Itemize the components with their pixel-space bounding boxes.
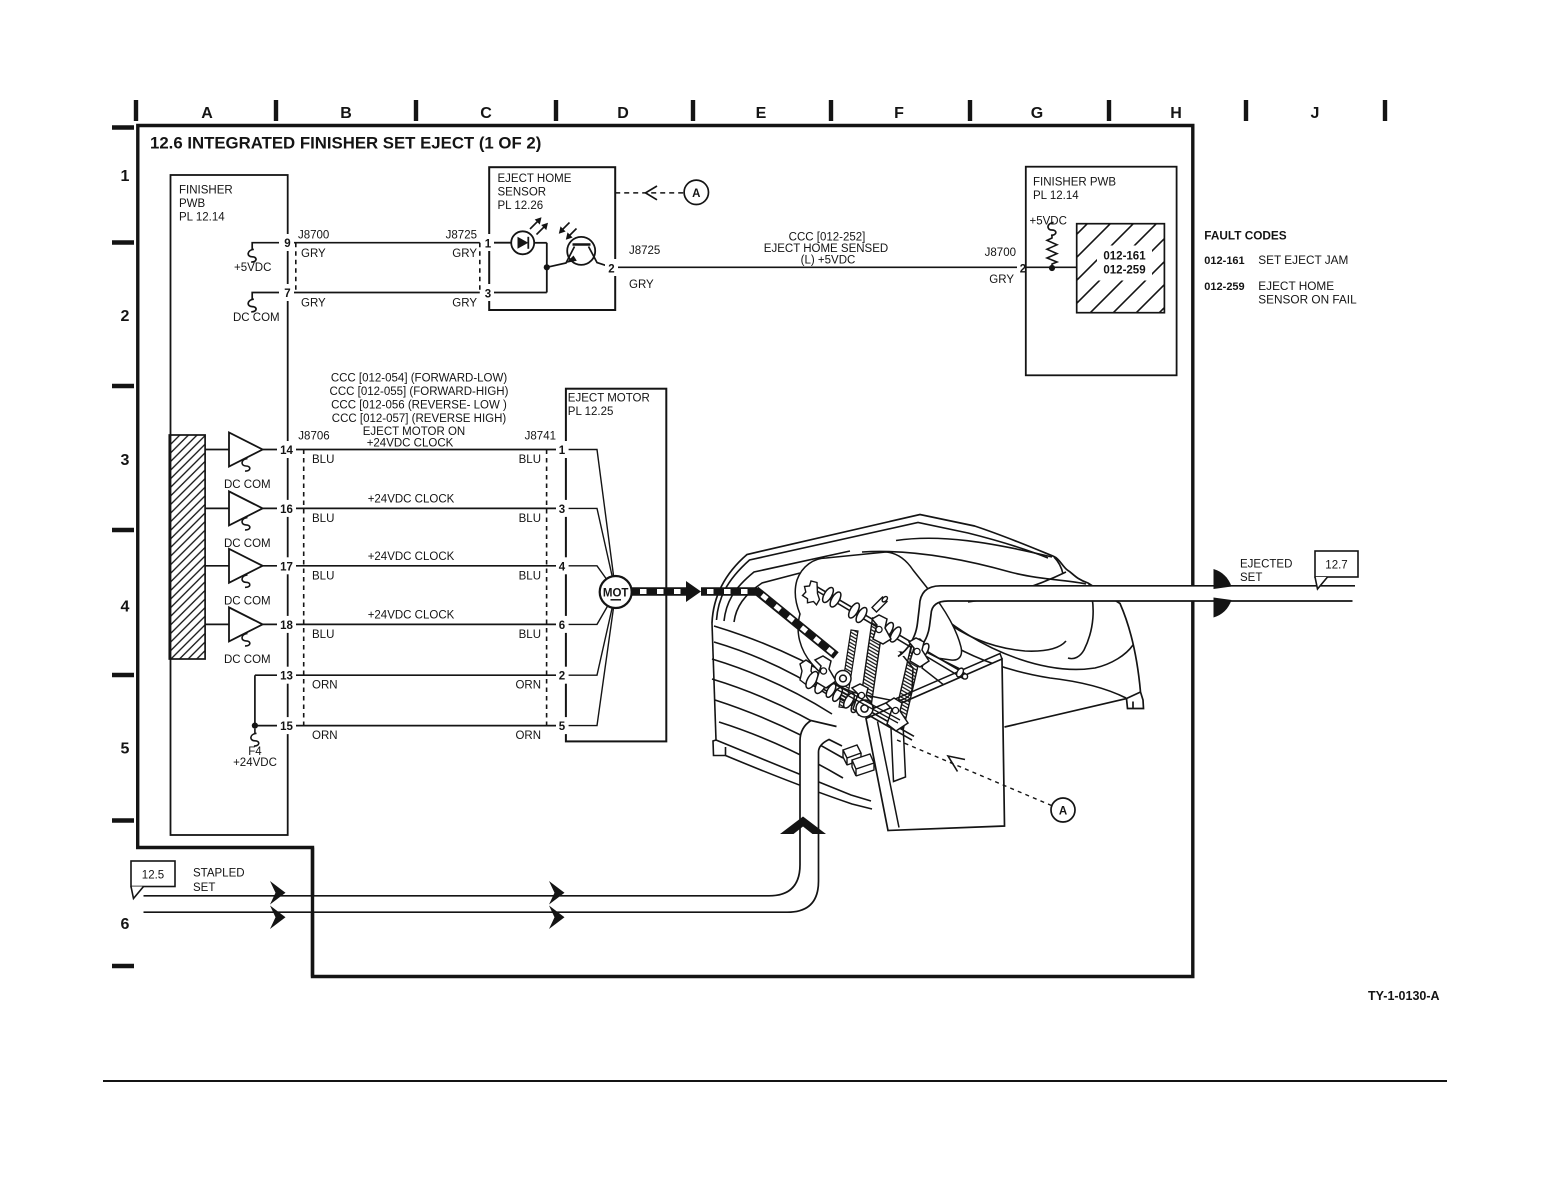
motor pin 3 [556, 500, 568, 517]
balloon A (top) [684, 180, 708, 204]
svg-text:BLU: BLU [312, 629, 334, 641]
upper shaft spool pair 3 [880, 621, 903, 644]
wire F4 feed to J8741-5 (ORN) [255, 675, 557, 725]
connector labels [298, 431, 556, 443]
motor pin 4 [556, 557, 568, 574]
svg-text:6: 6 [121, 916, 130, 933]
svg-text:CCC [012-054] (FORWARD-LOW): CCC [012-054] (FORWARD-LOW) [331, 373, 508, 385]
connector J8725 dashed (sensor side) [479, 243, 481, 293]
boundary fins on ejected path [1214, 569, 1232, 589]
svg-text:GRY: GRY [989, 274, 1014, 286]
svg-text:+24VDC CLOCK: +24VDC CLOCK [368, 610, 455, 622]
svg-text:BLU: BLU [519, 570, 541, 582]
svg-text:EJECT HOME: EJECT HOME [498, 173, 572, 185]
svg-text:A: A [1059, 806, 1067, 818]
svg-text:2: 2 [121, 308, 130, 325]
drive band arrowhead [686, 581, 701, 602]
svg-text:+24VDC: +24VDC [233, 757, 277, 769]
wire node to fault hatch box [1026, 266, 1077, 268]
finisher PWB box (right) PL 12.14 [1026, 167, 1177, 376]
CCC fault references (motor) [330, 373, 509, 450]
svg-text:DC COM: DC COM [224, 479, 271, 491]
photo-transistor of sensor [547, 237, 612, 267]
svg-text:J8700: J8700 [985, 247, 1016, 259]
flow arrow pair 2 on stapled path [549, 881, 565, 905]
shaft end mount arm [922, 652, 972, 693]
frame notch vertical (over path) [311, 848, 314, 977]
ejected set path: white core [898, 586, 1355, 657]
front panel sensor slot [891, 724, 906, 782]
svg-text:J: J [1311, 105, 1320, 122]
grid row numbers 1-6 [121, 168, 130, 933]
mechanism bracket 4 [852, 684, 874, 716]
eject mechanism: hatched lead screw 1 [859, 618, 884, 717]
pin 17 [277, 557, 296, 574]
svg-text:+24VDC CLOCK: +24VDC CLOCK [367, 437, 454, 449]
svg-text:4: 4 [559, 561, 566, 573]
bottom rule [103, 1080, 1447, 1082]
wires PWB internal to drivers [205, 450, 229, 625]
mechanism bracket 2 [909, 638, 929, 667]
svg-text:3: 3 [121, 452, 130, 469]
motor pin 6 [556, 616, 568, 633]
motor drive linkage band (horizontal) [632, 587, 686, 596]
ejected set path upper line [898, 586, 1355, 657]
pin 9 [281, 234, 294, 251]
LED (emitter) of sensor [494, 231, 547, 292]
svg-text:17: 17 [280, 561, 293, 573]
svg-text:GRY: GRY [301, 298, 326, 310]
svg-text:BLU: BLU [312, 513, 334, 525]
svg-text:D: D [617, 105, 629, 122]
eject home sensor box PL 12.26 [489, 167, 615, 310]
lower shaft left end bracket [800, 660, 816, 686]
svg-text:(L) +5VDC: (L) +5VDC [801, 255, 856, 267]
svg-text:J8706: J8706 [298, 431, 329, 443]
svg-text:7: 7 [284, 288, 290, 300]
connector J8700 dashed [295, 243, 297, 293]
upper shaft spool pair 4 [908, 637, 931, 660]
sensor pin 3 [482, 284, 494, 301]
svg-text:ORN: ORN [515, 680, 541, 692]
motor MOT symbol [600, 576, 632, 608]
motor pin 2 [556, 667, 568, 684]
motor pin 5 [556, 717, 568, 734]
node (junction LED/transistor) [544, 264, 550, 270]
wire J8700-7 to J8725-3 (GRY) [294, 292, 480, 294]
svg-text:2: 2 [608, 264, 614, 276]
pin 18 [277, 616, 296, 633]
svg-text:15: 15 [280, 721, 293, 733]
svg-text:EJECT MOTOR: EJECT MOTOR [568, 393, 650, 405]
motor fan-in wires [569, 450, 614, 726]
svg-text:E: E [756, 105, 767, 122]
svg-text:BLU: BLU [519, 513, 541, 525]
svg-text:BLU: BLU [519, 629, 541, 641]
+5VDC return symbol (right box) [1048, 223, 1056, 236]
svg-text:DC COM: DC COM [233, 312, 280, 324]
upper shaft spool pair 1 [820, 586, 843, 609]
svg-text:C: C [480, 105, 492, 122]
finisher PWB box (left) PL 12.14 [171, 175, 288, 835]
wire J8706-16 to J8741-3 (BLU) [263, 507, 557, 509]
wire color labels [312, 454, 541, 742]
sensor pin 1 [482, 234, 494, 251]
svg-text:4: 4 [121, 599, 130, 616]
svg-text:SET EJECT JAM: SET EJECT JAM [1258, 253, 1348, 267]
front panel top strip [864, 654, 1002, 713]
svg-text:5: 5 [559, 721, 566, 733]
pin 14 [277, 441, 296, 458]
transistor light arrows [562, 223, 577, 237]
svg-text:3: 3 [485, 289, 491, 301]
svg-text:14: 14 [280, 445, 293, 457]
eject motor box PL 12.25 [566, 389, 666, 742]
svg-text:+24VDC CLOCK: +24VDC CLOCK [368, 551, 455, 563]
balloon A (bottom) [1051, 798, 1075, 822]
svg-text:SENSOR: SENSOR [498, 187, 547, 199]
svg-text:13: 13 [280, 671, 293, 683]
svg-text:012-161: 012-161 [1103, 251, 1146, 263]
eject mechanism: belt band [839, 630, 858, 708]
drive band continues to gears [701, 587, 757, 596]
node F4 junction [252, 723, 258, 729]
grid row ticks (left) [112, 128, 134, 967]
svg-text:J8741: J8741 [525, 431, 556, 443]
svg-text:F: F [894, 105, 904, 122]
svg-text:EJECT MOTOR ON: EJECT MOTOR ON [363, 426, 465, 438]
+5VDC return symbol at pin 9 [248, 243, 279, 262]
mechanism grommet 1 [835, 671, 851, 687]
svg-text:5: 5 [121, 741, 130, 758]
wire F4 feed to J8741-2 (ORN) [255, 674, 557, 676]
svg-text:EJECT HOME: EJECT HOME [1258, 279, 1334, 293]
svg-text:DC COM: DC COM [224, 654, 271, 666]
DC COM return symbol at pin 7 [248, 293, 279, 312]
svg-text:PL 12.26: PL 12.26 [498, 200, 544, 212]
svg-text:BLU: BLU [312, 570, 334, 582]
svg-text:SET: SET [1240, 572, 1262, 584]
svg-text:STAPLED: STAPLED [193, 868, 245, 880]
svg-text:+24VDC CLOCK: +24VDC CLOCK [368, 494, 455, 506]
upper shaft crown end [803, 581, 820, 605]
svg-text:PL 12.14: PL 12.14 [1033, 190, 1079, 202]
mechanism tie rod [836, 685, 900, 723]
svg-text:EJECT HOME SENSED: EJECT HOME SENSED [764, 243, 888, 255]
svg-text:3: 3 [559, 504, 565, 516]
svg-text:18: 18 [280, 620, 293, 632]
pin 13 [277, 667, 296, 684]
resistor R (pull-up) [1047, 235, 1057, 268]
sensor pin 2 [605, 259, 618, 276]
eject mechanism: upper shaft [816, 586, 966, 679]
svg-text:+5VDC: +5VDC [234, 262, 271, 274]
svg-text:GRY: GRY [452, 248, 477, 260]
LED light arrows [530, 221, 545, 235]
finisher unit: cowl inner rims [717, 523, 1049, 623]
svg-text:FINISHER: FINISHER [179, 185, 233, 197]
latch block 1 [843, 745, 861, 765]
motor pin 1 [556, 441, 568, 458]
latch block 2 [852, 754, 874, 776]
svg-text:12.5: 12.5 [142, 870, 164, 882]
mechanism bracket 3 [815, 656, 836, 688]
svg-text:EJECTED: EJECTED [1240, 559, 1292, 571]
svg-text:1: 1 [485, 239, 492, 251]
grid column letters A-J [201, 105, 1319, 122]
ejected set path lower line [913, 601, 1353, 655]
svg-text:2: 2 [559, 671, 565, 683]
open arrowhead pointing left [646, 186, 658, 200]
pin 16 [277, 500, 296, 517]
ejected set label [1240, 559, 1292, 585]
wire J8706-18 to J8741-6 (BLU) [263, 623, 557, 625]
svg-text:9: 9 [284, 238, 290, 250]
stapled set paper path (white core) [144, 721, 843, 913]
upper shaft stub cylinder [872, 596, 888, 612]
eject mechanism: lower shaft [804, 674, 914, 740]
svg-text:H: H [1170, 105, 1182, 122]
flow arrow up on vertical stapled path [780, 817, 826, 835]
svg-text:CCC [012-055] (FORWARD-HIGH): CCC [012-055] (FORWARD-HIGH) [330, 386, 509, 398]
svg-text:BLU: BLU [312, 454, 334, 466]
svg-text:CCC [012-252]: CCC [012-252] [789, 232, 866, 244]
svg-text:012-161: 012-161 [1204, 255, 1244, 267]
stapled set paper path (upper line) [144, 721, 837, 896]
front panel inner edge [878, 722, 900, 828]
detail callout A (bottom) dashed leader [897, 740, 1052, 806]
upper shaft end cap [955, 667, 967, 679]
mechanism bracket 1 [872, 615, 891, 644]
svg-text:012-259: 012-259 [1103, 265, 1145, 277]
svg-text:MOT: MOT [603, 588, 629, 600]
svg-text:16: 16 [280, 504, 293, 516]
svg-text:12.7: 12.7 [1325, 560, 1347, 572]
svg-text:DC COM: DC COM [224, 538, 271, 550]
svg-text:PWB: PWB [179, 198, 206, 210]
svg-text:BLU: BLU [519, 454, 541, 466]
svg-text:FINISHER PWB: FINISHER PWB [1033, 177, 1116, 189]
grid column ticks (top) [136, 100, 1385, 121]
driver buffer 1 [229, 433, 263, 472]
svg-text:PL 12.14: PL 12.14 [179, 212, 225, 224]
finisher unit: tray surface curves [862, 538, 1133, 698]
mechanism bracket 5 [886, 698, 908, 731]
svg-text:J8725: J8725 [446, 230, 477, 242]
pin 15 [277, 717, 296, 734]
upper shaft spool pair 2 [846, 601, 869, 624]
svg-text:A: A [692, 188, 700, 200]
driver buffer 4 [229, 607, 263, 646]
connector J8741 dashed [546, 450, 548, 726]
ref callout 12.5 [131, 861, 175, 887]
svg-text:CCC [012-056 (REVERSE- LOW ): CCC [012-056 (REVERSE- LOW ) [331, 400, 507, 412]
stapled set paper path (lower line) [144, 740, 843, 913]
F4 +24VDC source symbol [254, 729, 256, 734]
svg-text:B: B [340, 105, 352, 122]
wire J8706-14 to J8741-1 (BLU) [263, 449, 557, 451]
svg-text:PL 12.25: PL 12.25 [568, 406, 614, 418]
svg-text:1: 1 [121, 168, 130, 185]
lower shaft roller flanges [803, 670, 864, 715]
svg-text:SET: SET [193, 882, 215, 894]
lower shaft extra spool pair [824, 682, 844, 703]
back plate lower lobe [798, 614, 913, 701]
svg-text:6: 6 [559, 620, 565, 632]
driver buffer 2 [229, 491, 263, 530]
bracket bolt heads [820, 626, 920, 713]
wire J8700-9 to J8725-1 (GRY) [294, 242, 480, 244]
svg-text:012-259: 012-259 [1204, 281, 1244, 293]
svg-text:SENSOR ON FAIL: SENSOR ON FAIL [1258, 293, 1357, 307]
detail callout A (top) dashed leader [615, 192, 684, 194]
finisher unit: body outline [712, 515, 1144, 728]
node (resistor to wire) [1049, 265, 1055, 271]
flow arrow pair 1 on stapled path [270, 881, 286, 905]
svg-text:TY-1-0130-A: TY-1-0130-A [1368, 989, 1440, 1003]
pin 2 (right PWB) [1017, 259, 1029, 276]
svg-text:J8700: J8700 [298, 230, 329, 242]
finisher unit: left stack plates [712, 623, 872, 809]
finisher unit: front panel [866, 659, 1005, 831]
svg-text:DC COM: DC COM [224, 595, 271, 607]
eject mechanism back plate [795, 552, 961, 660]
svg-text:1: 1 [559, 445, 566, 457]
svg-text:GRY: GRY [629, 279, 654, 291]
svg-text:A: A [201, 105, 213, 122]
eject mechanism: hatched lead screw 2 [893, 640, 924, 729]
mechanism grommet 2 [856, 700, 873, 717]
ref callout 12.7 [1315, 551, 1358, 577]
fault code hatched block [1077, 224, 1165, 313]
leader open arrowhead [948, 756, 965, 772]
svg-text:FAULT CODES: FAULT CODES [1204, 229, 1286, 243]
svg-text:12.6 INTEGRATED FINISHER SET E: 12.6 INTEGRATED FINISHER SET EJECT (1 OF… [150, 134, 541, 153]
wire J8725-2 to J8700-2 (GRY) CCC [012-252] [618, 266, 1026, 268]
driver buffer 3 [229, 549, 263, 588]
svg-text:ORN: ORN [312, 730, 338, 742]
svg-text:GRY: GRY [301, 248, 326, 260]
internal bus hatched bar [169, 435, 205, 659]
pin 7 [281, 284, 294, 301]
diagram border frame with bottom-left notch [138, 126, 1193, 977]
svg-text:CCC [012-057] (REVERSE HIGH): CCC [012-057] (REVERSE HIGH) [332, 413, 507, 425]
svg-text:J8725: J8725 [629, 245, 660, 257]
svg-text:ORN: ORN [312, 680, 338, 692]
svg-text:ORN: ORN [515, 730, 541, 742]
svg-text:GRY: GRY [452, 298, 477, 310]
stapled set label [193, 868, 245, 895]
svg-text:G: G [1031, 105, 1043, 122]
wire J8706-17 to J8741-4 (BLU) [263, 565, 557, 567]
connector J8706 dashed [303, 450, 305, 726]
